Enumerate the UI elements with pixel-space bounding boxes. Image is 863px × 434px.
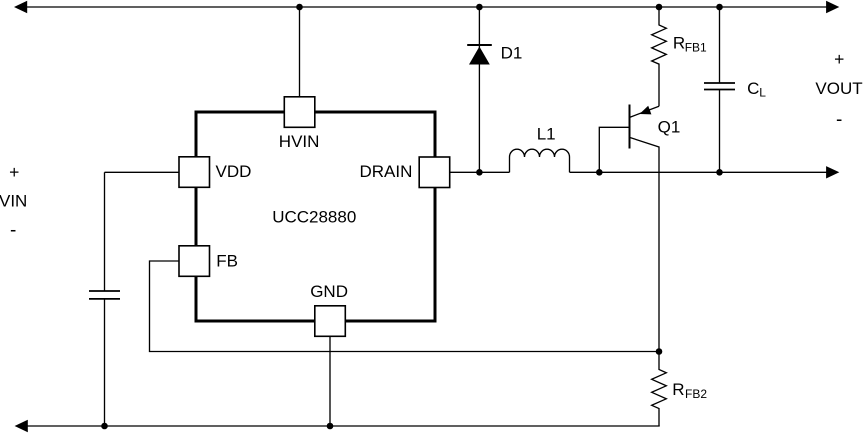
- node junction D1 / drain line: [476, 169, 483, 176]
- wire HVIN drop from top rail: [299, 7, 301, 97]
- svg-text:FB: FB: [216, 252, 238, 271]
- pin GND box: [315, 306, 346, 337]
- label RFB2: [672, 380, 707, 401]
- top rail right arrowhead: [826, 1, 839, 13]
- wire FB loop to feedback node: [150, 261, 660, 352]
- top rail left arrowhead: [14, 1, 27, 13]
- svg-text:VDD: VDD: [216, 162, 252, 181]
- node junction GND / bottom rail: [327, 423, 334, 430]
- svg-text:FB2: FB2: [685, 387, 707, 401]
- wire left column lower (capacitor to bottom rail): [104, 299, 106, 426]
- svg-text:R: R: [673, 34, 685, 53]
- capacitor CL: [704, 83, 735, 90]
- pin HVIN box: [284, 97, 315, 128]
- svg-text:L1: L1: [537, 124, 556, 143]
- svg-text:GND: GND: [310, 282, 348, 301]
- wire top rail: [24, 6, 828, 8]
- svg-text:DRAIN: DRAIN: [360, 162, 413, 181]
- capacitor CL branch wire lower: [719, 90, 721, 173]
- output rail right arrowhead: [826, 166, 839, 178]
- svg-text:VIN: VIN: [0, 191, 27, 210]
- svg-text:-: -: [836, 109, 842, 130]
- pin VDD box: [179, 157, 210, 188]
- node junction capacitor / bottom rail: [101, 423, 108, 430]
- capacitor C (input bypass): [89, 291, 120, 299]
- wire left column upper (VDD to capacitor): [104, 172, 106, 291]
- inductor L1: [510, 149, 570, 172]
- wire VDD to left column: [105, 171, 180, 173]
- node junction RFB1 / top rail: [656, 4, 663, 11]
- capacitor CL branch wire upper: [719, 7, 721, 83]
- svg-text:R: R: [672, 380, 684, 399]
- wire base branch from output rail: [599, 127, 629, 172]
- node junction base branch / output rail: [596, 169, 603, 176]
- svg-text:HVIN: HVIN: [279, 132, 320, 151]
- wire bottom rail: [24, 425, 660, 427]
- node junction CL / output rail: [716, 169, 723, 176]
- wire output rail (DRAIN to L1): [450, 171, 510, 173]
- wire output rail (L1 to VOUT): [570, 171, 829, 173]
- label CL: [747, 79, 766, 99]
- node junction feedback (FB / RFB1 collector / RFB2): [656, 348, 663, 355]
- resistor RFB1: [652, 7, 667, 106]
- svg-text:-: -: [10, 220, 16, 241]
- svg-text:VOUT: VOUT: [815, 79, 862, 98]
- svg-text:Q1: Q1: [658, 117, 681, 136]
- label RFB1: [673, 34, 707, 55]
- svg-text:UCC28880: UCC28880: [272, 207, 356, 226]
- diode D1 vertical branch wire: [478, 7, 480, 172]
- bottom rail left arrowhead: [15, 420, 28, 432]
- IC U1 UCC28880 body: [196, 112, 435, 321]
- node junction D1 / top rail: [476, 4, 483, 11]
- diode D1: [467, 45, 492, 65]
- node junction CL / top rail: [716, 4, 723, 11]
- transistor Q1: [630, 105, 660, 352]
- pin FB box: [179, 246, 210, 276]
- node junction top rail / HVIN: [296, 4, 303, 11]
- svg-text:+: +: [9, 162, 19, 182]
- svg-text:C: C: [747, 79, 759, 98]
- svg-text:L: L: [759, 85, 766, 99]
- svg-text:+: +: [834, 49, 844, 69]
- resistor RFB2: [652, 352, 667, 427]
- svg-text:D1: D1: [501, 43, 523, 62]
- svg-text:FB1: FB1: [685, 40, 707, 54]
- wire GND drop to bottom rail: [329, 336, 331, 426]
- pin DRAIN box: [419, 157, 450, 188]
